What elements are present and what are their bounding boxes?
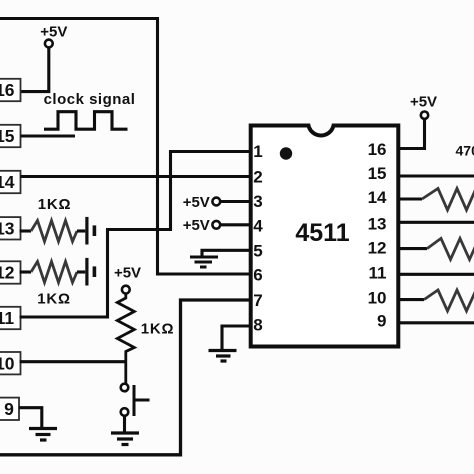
wire IC pin 5 to ground xyxy=(202,250,252,255)
resistor 470Ω at pin 14 xyxy=(397,197,422,200)
svg-text:13: 13 xyxy=(0,219,15,239)
clock waveform xyxy=(44,112,128,130)
svg-text:8: 8 xyxy=(253,316,262,335)
+5V pull-up supply xyxy=(114,264,141,293)
svg-text:7: 7 xyxy=(253,291,262,310)
svg-text:14: 14 xyxy=(368,188,387,207)
pin 1 orientation dot xyxy=(280,147,292,159)
node 11 terminal box xyxy=(0,307,21,329)
wire node 11 to IC pin 1 xyxy=(20,152,253,318)
svg-text:9: 9 xyxy=(377,312,386,331)
svg-text:5: 5 xyxy=(253,241,262,260)
node 9 terminal box xyxy=(0,398,19,420)
wire bottom rail to IC pin 7 xyxy=(0,300,252,455)
wire IC pin 15 xyxy=(397,174,474,177)
wire IC pin 13 xyxy=(397,221,474,224)
resistor 470Ω at pin 12 xyxy=(397,247,427,250)
wire IC pin 11 xyxy=(397,273,474,276)
node 14 terminal box xyxy=(0,171,21,193)
svg-text:1: 1 xyxy=(253,142,262,161)
svg-text:10: 10 xyxy=(368,289,387,308)
svg-text:10: 10 xyxy=(0,353,15,373)
node 15 terminal box xyxy=(0,125,21,147)
wire node 14 to IC pin 2 xyxy=(21,175,253,178)
svg-text:16: 16 xyxy=(0,80,15,100)
svg-text:1KΩ: 1KΩ xyxy=(38,196,72,213)
svg-text:+5V: +5V xyxy=(40,24,67,41)
wire node 10 xyxy=(20,360,126,363)
svg-text:3: 3 xyxy=(253,192,262,211)
wire net: top rail down to IC pin 6 xyxy=(0,19,252,275)
svg-text:12: 12 xyxy=(0,263,15,283)
svg-text:9: 9 xyxy=(4,399,14,419)
svg-text:2: 2 xyxy=(253,167,262,186)
svg-text:14: 14 xyxy=(0,172,15,192)
svg-text:15: 15 xyxy=(368,164,387,183)
wire IC pin 9 xyxy=(397,321,474,324)
svg-text:12: 12 xyxy=(368,239,387,258)
wire +5V to pin 4 xyxy=(220,223,252,226)
svg-text:+5V: +5V xyxy=(183,217,210,234)
resistor R12 1KΩ xyxy=(20,270,32,273)
wire +5V to node 16 xyxy=(21,47,49,91)
wire IC pin 8 to ground xyxy=(222,326,252,349)
ground at pin 5 xyxy=(190,257,218,267)
ground at pin 8 xyxy=(209,351,237,362)
svg-text:+5V: +5V xyxy=(410,94,437,111)
wire node 15 xyxy=(21,134,76,137)
+5V at IC pin 3 xyxy=(183,194,221,211)
svg-text:470Ω: 470Ω xyxy=(456,142,474,158)
wire switch to ground xyxy=(123,416,126,432)
svg-text:+5V: +5V xyxy=(114,264,141,281)
svg-text:4: 4 xyxy=(253,217,263,236)
ground under switch xyxy=(111,433,139,445)
node 13 terminal box xyxy=(0,217,21,239)
wire +5V to pin 3 xyxy=(220,200,252,203)
pushbutton switch S1 xyxy=(121,384,150,416)
node 16 terminal box xyxy=(0,79,21,101)
svg-text:16: 16 xyxy=(368,140,387,159)
svg-text:11: 11 xyxy=(369,264,387,283)
+5V supply top-left xyxy=(40,24,67,48)
resistor R13 1KΩ xyxy=(20,229,32,232)
svg-text:4511: 4511 xyxy=(295,219,349,247)
wire IC pin 16 to +5V xyxy=(397,119,425,149)
battery cell B13 xyxy=(85,217,96,245)
svg-text:clock signal: clock signal xyxy=(44,91,136,108)
node 12 terminal box xyxy=(0,261,21,283)
IC U1 4511 body xyxy=(251,126,399,347)
+5V supply right xyxy=(410,94,437,119)
resistor 470Ω at pin 10 xyxy=(397,298,424,301)
ground at node 9 xyxy=(29,429,57,441)
node 10 terminal box xyxy=(0,352,21,374)
svg-text:15: 15 xyxy=(0,126,15,146)
svg-text:1KΩ: 1KΩ xyxy=(37,290,71,307)
wire node 9 to ground xyxy=(19,408,42,427)
svg-text:6: 6 xyxy=(253,265,262,284)
svg-text:13: 13 xyxy=(368,215,387,234)
resistor R10 1KΩ pull-up xyxy=(117,294,134,384)
battery cell B12 xyxy=(85,258,96,286)
+5V at IC pin 4 xyxy=(183,217,221,234)
svg-text:1KΩ: 1KΩ xyxy=(141,320,175,337)
svg-text:11: 11 xyxy=(0,308,14,328)
svg-text:+5V: +5V xyxy=(183,194,210,211)
